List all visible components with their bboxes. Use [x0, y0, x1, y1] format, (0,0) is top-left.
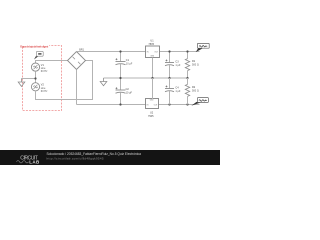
svg-text:OUT: OUT	[154, 52, 158, 54]
top rail (+)	[77, 51, 146, 53]
regulator U1 7805	[146, 40, 160, 58]
annotation box (red dashed region)	[23, 46, 62, 111]
ground (left)	[18, 79, 25, 87]
svg-text:60 Hz: 60 Hz	[41, 90, 48, 93]
capacitor C2	[116, 78, 133, 105]
resistor R1	[185, 52, 199, 79]
U1 GND stem	[152, 58, 154, 79]
ground (right)	[100, 78, 107, 86]
svg-text:500 Ω: 500 Ω	[192, 64, 199, 67]
wire V1 top to bridge	[36, 61, 68, 64]
node: R1 / top rail junction	[186, 50, 188, 52]
svg-text:Solucionado / 20524683_FabianF: Solucionado / 20524683_FabianFierroRuiz_…	[47, 152, 142, 156]
U2 GND stem	[152, 78, 154, 99]
node: R2 / negative rail junction	[186, 103, 188, 105]
bottom rail right of U2	[159, 104, 200, 106]
svg-text:10 µF: 10 µF	[126, 91, 133, 94]
note flag at V1 node	[34, 56, 38, 59]
wire bridge minus down	[76, 70, 78, 105]
svg-text:7805: 7805	[148, 43, 154, 46]
capacitor C4	[165, 78, 181, 105]
svg-text:BR1: BR1	[79, 48, 84, 51]
node: C1 / top rail junction	[119, 50, 121, 52]
flag bottom-right (- output label)	[191, 98, 208, 106]
svg-text:7905: 7905	[148, 115, 154, 118]
svg-text:http://circuitlab.com/c/8d48gq: http://circuitlab.com/c/8d48gqk9545	[47, 156, 104, 160]
svg-text:sine: sine	[41, 67, 46, 70]
wire V2 bottom to bridge AC2	[36, 61, 93, 100]
node V1/V2 center tap	[34, 77, 36, 79]
node: C3/C4 / ground rail junction	[168, 77, 170, 79]
svg-text:500 Ω: 500 Ω	[192, 90, 199, 93]
voltage source V2	[31, 83, 39, 91]
voltage source V1	[31, 63, 39, 71]
capacitor C3	[165, 52, 181, 79]
node: C4 / negative rail junction	[168, 103, 170, 105]
top rail right of U1	[160, 51, 200, 53]
circuitlab logo	[17, 155, 40, 164]
node: R1/R2 / ground rail junction	[186, 77, 188, 79]
svg-text:Etapa de baja del trafo digest: Etapa de baja del trafo digest	[20, 45, 48, 48]
svg-text:10 µF: 10 µF	[126, 62, 133, 65]
svg-text:60 Hz: 60 Hz	[41, 70, 48, 73]
svg-text:1 µF: 1 µF	[175, 64, 181, 67]
bottom rail (-) left of U2	[77, 104, 146, 106]
node: U1 GND / ground rail junction	[151, 77, 153, 79]
svg-text:OUT: OUT	[154, 104, 158, 106]
svg-text:sine: sine	[41, 87, 46, 90]
svg-text:1 µF: 1 µF	[175, 90, 181, 93]
bottom watermark bar	[0, 150, 220, 165]
node: C1/C2 / ground rail junction	[119, 77, 121, 79]
wire to left ground	[22, 78, 36, 80]
regulator U2 7905	[146, 99, 159, 118]
capacitor C1	[116, 52, 133, 79]
node: C2 / negative rail junction	[119, 103, 121, 105]
svg-text:LAB: LAB	[29, 159, 40, 164]
node: C3 / top rail junction	[168, 50, 170, 52]
annotation box label	[20, 44, 49, 48]
middle ground rail	[104, 77, 188, 79]
bridge rectifier BR1	[68, 48, 86, 69]
wire V1 to V2	[35, 71, 37, 83]
resistor R2	[185, 78, 199, 105]
flag top-right (+ output label)	[196, 43, 210, 52]
